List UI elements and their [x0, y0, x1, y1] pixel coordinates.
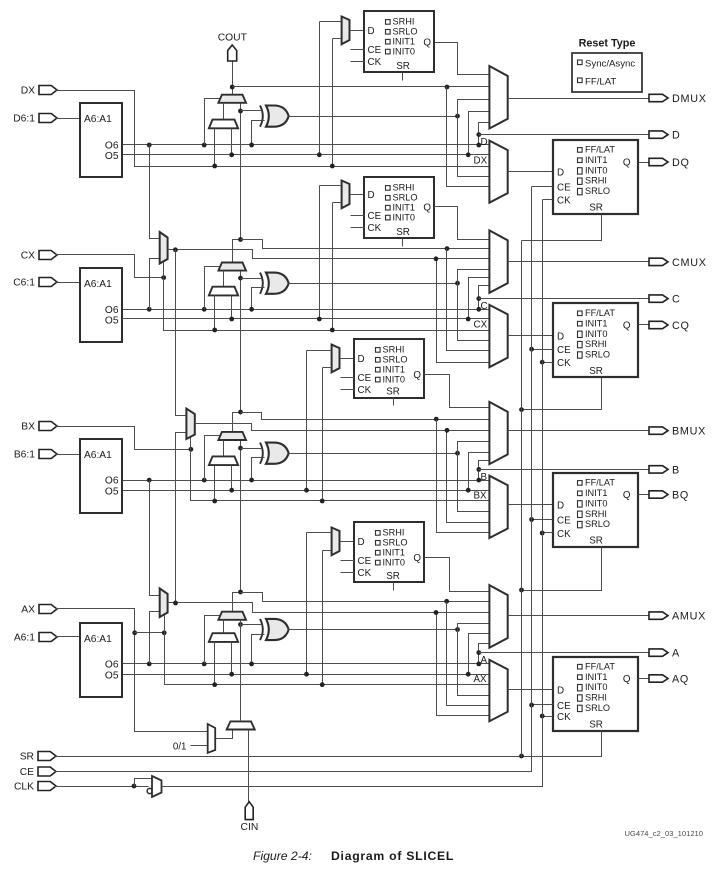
wire O5 line C: [123, 318, 490, 320]
svg-text:Reset Type: Reset Type: [579, 38, 636, 50]
svg-text:INIT1: INIT1: [383, 548, 405, 558]
wire CK stub small FF A: [341, 572, 355, 574]
svg-text:INIT1: INIT1: [585, 672, 607, 682]
node BQ output arrow: [649, 491, 668, 498]
wire CE stub small FF C: [351, 215, 365, 217]
wire B6:1 to LUT: [56, 454, 81, 456]
svg-text:CE: CE: [557, 345, 571, 356]
wire AX descent and AX line: [56, 609, 208, 732]
XOR gate C: [266, 273, 289, 294]
svg-text:0/1: 0/1: [173, 741, 187, 752]
svg-text:A: A: [672, 648, 680, 660]
wire CX jog and CX line: [56, 255, 164, 278]
wire CE into BFF: [532, 519, 553, 521]
wire O6 riser, D direct output line: [479, 123, 490, 145]
wire F8MUX output: [195, 424, 490, 431]
svg-text:DQ: DQ: [672, 157, 690, 169]
svg-text:AQ: AQ: [672, 673, 689, 685]
carry DI mux B: [209, 456, 238, 465]
svg-text:Q: Q: [423, 38, 431, 49]
wire SR stub small FF D: [402, 73, 404, 81]
wire O5 line B: [123, 490, 490, 492]
wire CIN riser: [248, 730, 250, 802]
svg-text:CK: CK: [557, 358, 571, 369]
svg-text:Q: Q: [623, 158, 631, 169]
svg-text:CK: CK: [368, 223, 382, 234]
output mux C (CMUX): [489, 230, 507, 292]
svg-text:A: A: [481, 655, 488, 666]
svg-text:O6: O6: [105, 476, 119, 487]
node D output arrow: [649, 131, 668, 138]
wire XOR riser to bypass mux B: [458, 454, 490, 512]
wire CE into CFF: [532, 349, 553, 351]
svg-text:CIN: CIN: [241, 822, 259, 833]
LUT D (A6:A1 / O6 O5): [80, 103, 122, 177]
wire BX into DI mux: [214, 466, 216, 501]
svg-text:INIT0: INIT0: [585, 498, 607, 508]
mux F7AMUX: [160, 588, 168, 617]
wire XOR riser to output mux B: [458, 442, 490, 454]
svg-text:Q: Q: [623, 321, 631, 332]
svg-text:SR: SR: [386, 571, 400, 582]
wire CFF Q output: [639, 324, 649, 326]
svg-text:SRLO: SRLO: [393, 27, 418, 37]
svg-text:CMUX: CMUX: [672, 257, 707, 269]
svg-text:O5: O5: [105, 671, 119, 682]
XOR gate B: [266, 443, 289, 464]
wire F7BMUX riser to bypass mux: [437, 259, 490, 363]
svg-text:A6:A1: A6:A1: [84, 279, 112, 290]
flip-flop BFF (FF/LAT): [553, 473, 638, 547]
svg-text:C6:1: C6:1: [13, 278, 35, 289]
wire O6 riser, A direct output line: [479, 644, 490, 664]
wire small FF Q to output mux B: [425, 375, 490, 408]
svg-text:A6:A1: A6:A1: [84, 634, 112, 645]
storage element D5FF (SRHI/SRLO/INIT1/INIT0): [364, 11, 434, 72]
svg-text:CK: CK: [358, 568, 372, 579]
wire SR into CFF: [522, 378, 602, 410]
wire CLK line into clock mux: [55, 786, 149, 788]
flip-flop DFF (FF/LAT): [553, 140, 638, 214]
svg-text:CK: CK: [358, 385, 372, 396]
wire O5 riser into small FF mux A: [307, 532, 332, 534]
svg-text:SRHI: SRHI: [383, 345, 405, 355]
node A output arrow: [649, 649, 668, 656]
wire init mux output into carry init mux: [216, 730, 233, 739]
svg-text:FF/LAT: FF/LAT: [585, 478, 615, 488]
svg-text:INIT0: INIT0: [383, 557, 405, 567]
node DQ output arrow: [649, 158, 668, 165]
wire DI mux output into carry mux A: [223, 620, 225, 634]
wire BX riser into small FF mux: [323, 367, 332, 369]
svg-text:CK: CK: [557, 712, 571, 723]
wire SR riser: [521, 241, 523, 757]
bypass mux C (feeds CFF): [489, 305, 507, 367]
wire small FF mux output to D input A: [340, 541, 355, 543]
svg-text:CE: CE: [557, 183, 571, 194]
svg-text:O6: O6: [105, 141, 119, 152]
wire AMUX output: [508, 615, 649, 617]
svg-text:SRLO: SRLO: [585, 519, 610, 529]
svg-text:BX: BX: [474, 490, 488, 501]
wire AX into DI mux: [214, 642, 216, 685]
wire O6 select into carry mux B: [202, 478, 207, 483]
svg-text:A6:1: A6:1: [14, 633, 35, 644]
wire SR spine: [55, 731, 602, 757]
svg-text:Sync/Async: Sync/Async: [585, 58, 635, 69]
svg-text:CQ: CQ: [672, 320, 690, 332]
svg-text:D: D: [368, 190, 375, 201]
svg-text:DMUX: DMUX: [672, 93, 707, 105]
flip-flop AFF (FF/LAT): [553, 657, 638, 731]
wire CX riser into small FF mux: [333, 202, 342, 204]
wire CK into DFF: [543, 199, 553, 201]
wire CK into BFF: [543, 532, 553, 534]
svg-text:SRHI: SRHI: [393, 17, 415, 27]
wire O6 line C: [123, 309, 490, 311]
wire DX line: [56, 91, 490, 167]
wire small FF Q to output mux A: [425, 558, 490, 592]
svg-text:B6:1: B6:1: [14, 450, 35, 461]
svg-text:A6:A1: A6:A1: [84, 450, 112, 461]
wire O6 tap to XOR bottom input B: [252, 458, 265, 481]
svg-text:D: D: [557, 332, 564, 343]
svg-text:D: D: [672, 130, 680, 142]
svg-text:D: D: [368, 26, 375, 37]
wire C6:1 to LUT: [56, 282, 81, 284]
wire O6 tap to XOR bottom input D: [252, 121, 265, 145]
svg-text:C: C: [672, 294, 680, 306]
svg-text:Q: Q: [623, 674, 631, 685]
carry init mux (CYINIT): [227, 721, 255, 729]
clock inversion mux bubble: [147, 788, 152, 793]
wire XOR riser to output mux A: [458, 624, 490, 630]
svg-text:INIT0: INIT0: [585, 165, 607, 175]
wire CK into AFF: [543, 716, 553, 718]
wire carry tap to XOR top input D: [241, 110, 263, 112]
svg-text:SR: SR: [589, 719, 603, 730]
svg-text:Q: Q: [623, 490, 631, 501]
wire XOR output D: [289, 116, 458, 118]
carry DI mux A: [209, 633, 238, 642]
wire CE spine and riser: [55, 187, 532, 772]
wire small FF Q to output mux D: [435, 43, 490, 75]
svg-text:SR: SR: [589, 536, 603, 547]
svg-text:INIT1: INIT1: [393, 203, 415, 213]
svg-text:SRLO: SRLO: [383, 355, 408, 365]
carry DI mux D: [209, 120, 238, 129]
wire BFF Q output: [639, 494, 649, 496]
svg-text:SR: SR: [20, 752, 34, 763]
wire carry riser to bypass mux A: [447, 602, 490, 706]
svg-text:B: B: [672, 464, 679, 476]
wire O5 riser into small FF mux C: [320, 185, 342, 187]
wire O5 into DI mux B: [231, 466, 233, 491]
wire CK stub small FF C: [351, 227, 365, 229]
wire O5 riser into small FF mux D: [320, 21, 342, 23]
wire bypass mux output to DFF D input: [508, 171, 553, 173]
svg-text:DX: DX: [21, 86, 35, 97]
wire DMUX output: [508, 98, 649, 100]
svg-text:INIT0: INIT0: [393, 212, 415, 222]
svg-text:SR: SR: [589, 203, 603, 214]
small FF input mux D: [342, 17, 350, 45]
svg-text:CE: CE: [358, 556, 372, 567]
svg-text:D: D: [557, 685, 564, 696]
LUT A (A6:A1 / O6 O5): [80, 623, 122, 697]
svg-text:SRHI: SRHI: [585, 693, 607, 703]
wire XOR output B: [289, 453, 458, 455]
svg-text:O5: O5: [105, 151, 119, 162]
svg-text:SRLO: SRLO: [383, 538, 408, 548]
wire carry-in vertical into C carry mux: [240, 271, 242, 413]
wire D6:1 to LUT: [56, 118, 81, 120]
wire O5 line D: [123, 154, 490, 156]
svg-text:D: D: [557, 500, 564, 511]
wire DI mux output into carry mux D: [223, 103, 225, 120]
svg-text:Diagram of SLICEL: Diagram of SLICEL: [331, 849, 454, 863]
wire DX riser into small FF mux: [333, 38, 342, 40]
svg-text:O5: O5: [105, 315, 119, 326]
LUT C (A6:A1 / O6 O5): [80, 268, 122, 342]
LUT B (A6:A1 / O6 O5): [80, 439, 122, 513]
XOR gate A: [266, 619, 289, 640]
wire carry-in vertical into A carry mux: [240, 620, 242, 722]
wire O6 select into carry mux C: [202, 307, 207, 312]
clock inversion mux: [152, 776, 162, 797]
wire carry-in vertical into D carry mux: [240, 103, 242, 240]
svg-text:CE: CE: [20, 767, 34, 778]
svg-text:SR: SR: [396, 61, 410, 72]
svg-text:B: B: [481, 472, 488, 483]
wire SR stub small FF A: [393, 583, 395, 591]
wire BX jog and BX line: [56, 427, 191, 450]
carry init select mux (AX/0-1): [208, 724, 216, 753]
wire DI mux output into carry mux B: [223, 441, 225, 457]
wire DX into DI mux: [214, 129, 216, 167]
svg-text:INIT0: INIT0: [585, 682, 607, 692]
node DMUX output arrow: [649, 94, 668, 101]
wire XOR riser to output mux C: [458, 270, 490, 284]
wire O5 riser to output mux C: [469, 278, 490, 319]
svg-text:SRHI: SRHI: [585, 176, 607, 186]
wire CX into DI mux: [214, 296, 216, 331]
wire carry-in vertical into B carry mux: [240, 441, 242, 593]
wire O5 riser to output mux D: [469, 112, 490, 155]
node C output arrow: [649, 295, 668, 302]
wire O6 select into carry mux A: [202, 662, 207, 667]
mux F7BMUX: [160, 232, 168, 264]
svg-text:FF/LAT: FF/LAT: [585, 308, 615, 318]
svg-text:O6: O6: [105, 305, 119, 316]
wire small FF mux output to D input B: [340, 358, 355, 360]
svg-text:O5: O5: [105, 487, 119, 498]
wire A6:1 to LUT: [56, 636, 81, 638]
node BMUX output arrow: [649, 427, 668, 434]
svg-text:INIT1: INIT1: [585, 155, 607, 165]
wire F7AMUX riser to bypass mux: [437, 613, 490, 716]
wire AFF Q output: [639, 678, 649, 680]
svg-text:CE: CE: [557, 701, 571, 712]
svg-text:SR: SR: [386, 387, 400, 398]
wire carry jog from B mux up / branch to B output mux: [233, 413, 241, 432]
wire CE stub small FF B: [341, 377, 355, 379]
wire F8MUX riser to bypass mux: [447, 431, 490, 523]
svg-text:BMUX: BMUX: [672, 426, 706, 438]
wire O5 into DI mux D: [231, 129, 233, 155]
wire SR stub small FF B: [393, 398, 395, 406]
output mux D (DMUX): [489, 66, 507, 129]
wire O6 line D: [123, 144, 490, 146]
svg-text:SRHI: SRHI: [383, 528, 405, 538]
bypass mux A (feeds AFF): [489, 660, 507, 721]
wire SR into AFF: [601, 731, 603, 757]
svg-text:INIT1: INIT1: [585, 319, 607, 329]
wire XOR output C: [289, 283, 458, 285]
wire carry init to A carry mux: [240, 620, 242, 722]
wire O5 line A: [123, 674, 490, 676]
mux F8MUX: [186, 409, 194, 439]
wire inputs into F8MUX: [176, 250, 187, 416]
wire CK into CFF: [543, 362, 553, 364]
svg-text:CX: CX: [21, 251, 35, 262]
svg-text:FF/LAT: FF/LAT: [585, 145, 615, 155]
wire CE into DFF: [532, 186, 553, 188]
wire O5 riser to output mux A: [469, 634, 490, 675]
svg-text:DX: DX: [474, 155, 488, 166]
svg-text:INIT1: INIT1: [383, 365, 405, 375]
bypass mux D (feeds DFF): [489, 141, 507, 203]
svg-text:FF/LAT: FF/LAT: [585, 76, 616, 87]
wire CE stub small FF A: [341, 560, 355, 562]
wire XOR riser to bypass mux C: [458, 284, 490, 341]
carry mux (MUXCY) C: [218, 263, 246, 271]
storage element B5FF (SRHI/SRLO/INIT1/INIT0): [354, 339, 424, 398]
wire XOR output A: [289, 629, 458, 631]
svg-text:SRLO: SRLO: [393, 193, 418, 203]
wire small FF mux output to D input C: [350, 194, 365, 196]
small FF input mux B: [332, 345, 340, 373]
small FF input mux A: [332, 528, 340, 556]
wire O5 into DI mux C: [231, 296, 233, 319]
svg-text:Q: Q: [423, 202, 431, 213]
node B output arrow: [649, 466, 668, 473]
small FF input mux C: [342, 181, 350, 209]
svg-text:CK: CK: [368, 57, 382, 68]
svg-text:Figure 2-4:: Figure 2-4:: [253, 849, 312, 863]
wire CE into AFF: [532, 704, 553, 706]
wire F7AMUX output: [168, 603, 490, 613]
svg-text:INIT0: INIT0: [383, 374, 405, 384]
svg-text:SRLO: SRLO: [585, 703, 610, 713]
carry mux (MUXCY) A: [218, 612, 246, 620]
svg-text:FF/LAT: FF/LAT: [585, 662, 615, 672]
svg-text:INIT0: INIT0: [393, 46, 415, 56]
svg-text:UG474_c2_03_101210: UG474_c2_03_101210: [624, 829, 703, 838]
bypass mux B (feeds BFF): [489, 476, 507, 538]
wire CLK spine and riser: [162, 200, 543, 787]
wire COUT carry line and branch to D output mux: [232, 61, 234, 95]
wire O6 riser, B direct output line: [479, 461, 490, 481]
svg-text:Q: Q: [413, 370, 421, 381]
svg-text:COUT: COUT: [218, 33, 248, 44]
wire carry tap to XOR top input C: [241, 278, 263, 280]
svg-text:SRLO: SRLO: [585, 186, 610, 196]
svg-text:AMUX: AMUX: [672, 611, 706, 623]
wire O6 line B: [123, 480, 490, 482]
wire O5 into DI mux A: [231, 642, 233, 675]
wire DI mux output into carry mux C: [223, 271, 225, 287]
svg-text:BX: BX: [21, 422, 35, 433]
svg-text:INIT1: INIT1: [585, 488, 607, 498]
svg-text:CK: CK: [557, 529, 571, 540]
node AMUX output arrow: [649, 612, 668, 619]
svg-text:CE: CE: [368, 211, 382, 222]
wire XOR riser to bypass mux A: [458, 630, 490, 696]
wire O6 tap to XOR bottom input C: [252, 288, 265, 310]
flip-flop CFF (FF/LAT): [553, 303, 638, 377]
svg-text:CX: CX: [474, 319, 488, 330]
svg-text:INIT1: INIT1: [393, 37, 415, 47]
wire carry riser to bypass mux B: [437, 420, 490, 533]
wire inputs into F7AMUX: [147, 478, 152, 483]
node CQ output arrow: [649, 321, 668, 328]
wire O6 select into carry mux D: [202, 143, 207, 148]
wire F7BMUX output: [168, 250, 490, 259]
svg-text:SRHI: SRHI: [393, 183, 415, 193]
wire SR into DFF: [522, 215, 602, 241]
wire XOR riser to output mux D: [458, 100, 490, 117]
svg-text:INIT0: INIT0: [585, 329, 607, 339]
svg-text:O6: O6: [105, 660, 119, 671]
svg-text:SRHI: SRHI: [585, 339, 607, 349]
XOR gate D: [266, 106, 289, 127]
wire SR stub small FF C: [402, 239, 404, 247]
svg-text:Q: Q: [413, 553, 421, 564]
wire inputs into F7BMUX: [147, 143, 152, 148]
output mux B (BMUX): [489, 402, 507, 464]
wire CE stub small FF D: [351, 49, 365, 51]
svg-text:C: C: [481, 301, 488, 312]
wire CK stub small FF B: [341, 389, 355, 391]
wire CMUX output: [508, 261, 649, 263]
wire bypass mux output to BFF D input: [508, 504, 553, 506]
wire SR into BFF: [522, 547, 602, 591]
wire small FF mux output to D input D: [350, 30, 365, 32]
svg-text:CLK: CLK: [14, 782, 34, 793]
wire AX riser into small FF mux: [323, 550, 332, 552]
wire carry riser to bypass mux D: [447, 87, 490, 187]
wire CK stub small FF D: [351, 61, 365, 63]
svg-text:CE: CE: [358, 373, 372, 384]
carry DI mux C: [209, 287, 238, 296]
svg-text:D: D: [557, 168, 564, 179]
wire small FF Q to output mux C: [435, 207, 490, 240]
output mux A (AMUX): [489, 585, 507, 648]
svg-text:SRHI: SRHI: [585, 509, 607, 519]
svg-text:AX: AX: [21, 605, 35, 616]
node CMUX output arrow: [649, 258, 668, 265]
svg-text:AX: AX: [474, 674, 488, 685]
wire carry tap to XOR top input A: [241, 624, 263, 626]
wire O5 riser to output mux B: [469, 453, 490, 491]
svg-text:SR: SR: [396, 227, 410, 238]
svg-text:SRLO: SRLO: [585, 350, 610, 360]
wire O5 riser into small FF mux B: [307, 350, 332, 352]
node CIN: [245, 802, 253, 820]
svg-text:BQ: BQ: [672, 489, 689, 501]
wire O6 line A: [123, 663, 490, 665]
